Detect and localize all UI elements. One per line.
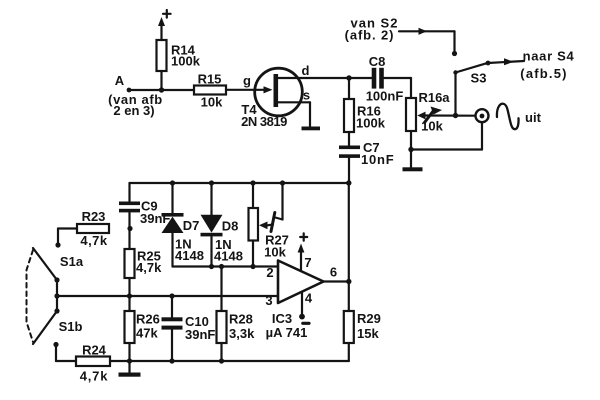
svg-text:S3: S3 (471, 71, 487, 86)
svg-text:4,7k: 4,7k (80, 233, 108, 248)
svg-text:R29: R29 (357, 311, 381, 326)
svg-text:R28: R28 (229, 312, 253, 327)
svg-text:47k: 47k (136, 326, 158, 341)
svg-text:4,7k: 4,7k (136, 260, 162, 275)
svg-text:4,7k: 4,7k (80, 369, 109, 384)
svg-text:7: 7 (304, 255, 311, 270)
svg-text:10k: 10k (264, 245, 286, 260)
svg-text:39nF: 39nF (185, 327, 215, 342)
svg-text:10k: 10k (421, 119, 443, 134)
svg-text:4148: 4148 (175, 248, 204, 263)
svg-text:2N 3819: 2N 3819 (241, 114, 287, 129)
svg-text:R24: R24 (82, 343, 107, 358)
svg-text:R16a: R16a (418, 90, 450, 105)
svg-text:d: d (302, 63, 310, 78)
svg-text:(afb.5): (afb.5) (520, 66, 567, 81)
svg-text:6: 6 (330, 265, 337, 280)
svg-text:IC3: IC3 (272, 311, 292, 326)
svg-text:C8: C8 (369, 54, 386, 69)
svg-text:100k: 100k (356, 116, 386, 131)
svg-text:s: s (303, 88, 310, 103)
svg-text:2 en 3): 2 en 3) (113, 103, 154, 118)
svg-text:(afb. 2): (afb. 2) (345, 28, 395, 43)
svg-text:D7: D7 (183, 218, 200, 233)
svg-text:g: g (243, 73, 251, 88)
svg-text:4148: 4148 (214, 249, 243, 264)
svg-text:naar S4: naar S4 (523, 49, 575, 64)
svg-text:A: A (115, 73, 125, 88)
svg-text:39nF: 39nF (140, 211, 170, 226)
svg-text:S1a: S1a (60, 254, 84, 269)
svg-text:100nF: 100nF (366, 89, 404, 104)
svg-text:10nF: 10nF (361, 152, 395, 167)
svg-text:R23: R23 (82, 209, 106, 224)
svg-text:15k: 15k (357, 326, 379, 341)
svg-text:R15: R15 (198, 72, 222, 87)
svg-text:10k: 10k (201, 95, 223, 110)
svg-text:100k: 100k (171, 54, 201, 69)
svg-text:2: 2 (266, 265, 273, 280)
svg-text:3,3k: 3,3k (229, 326, 255, 341)
svg-text:uit: uit (525, 110, 542, 125)
svg-text:R26: R26 (136, 312, 160, 327)
svg-text:3: 3 (265, 293, 272, 308)
svg-text:D8: D8 (222, 219, 239, 234)
svg-text:µA 741: µA 741 (266, 325, 308, 340)
svg-text:4: 4 (305, 291, 313, 306)
svg-text:S1b: S1b (59, 319, 83, 334)
